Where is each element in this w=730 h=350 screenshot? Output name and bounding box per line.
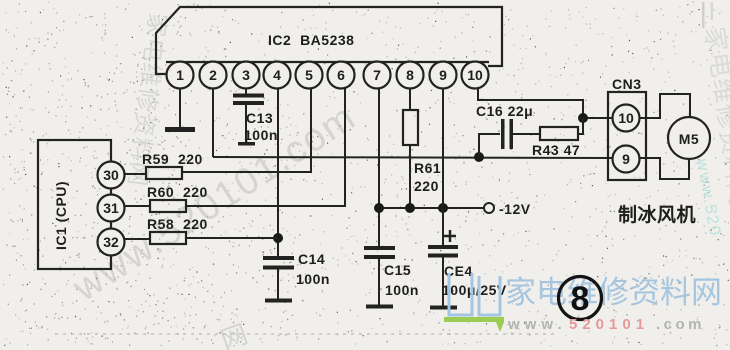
svg-text:6: 6 xyxy=(337,67,345,83)
IC2 pin 8 xyxy=(397,62,424,89)
faint diagonal watermark www.520101.com (left-middle) xyxy=(65,96,364,310)
IC1 pin 31 xyxy=(98,195,125,222)
wire net157 pin2 to CN3 pin9 xyxy=(213,157,613,158)
IC2 pin 2 xyxy=(200,62,227,89)
svg-text:30: 30 xyxy=(103,167,119,183)
svg-text:5: 5 xyxy=(305,67,313,83)
resistor R61 xyxy=(403,110,418,145)
IC2 pin 7 xyxy=(364,62,391,89)
IC2 pin 10 xyxy=(462,62,489,89)
wire pin2 down xyxy=(212,88,214,157)
svg-text:R60 220: R60 220 xyxy=(147,184,208,200)
junction node bus/R61 xyxy=(405,203,415,213)
svg-text:IC1 (CPU): IC1 (CPU) xyxy=(53,181,69,250)
svg-text:9: 9 xyxy=(622,151,630,167)
CN3 pin 10 xyxy=(613,105,640,132)
svg-text:32: 32 xyxy=(103,234,119,250)
svg-text:4: 4 xyxy=(273,67,281,83)
IC1 pin 30 xyxy=(98,162,125,189)
svg-text:3: 3 xyxy=(242,67,250,83)
svg-text:R43 47: R43 47 xyxy=(532,142,580,158)
junction node bus/pin7 xyxy=(374,203,384,213)
svg-text:.com: .com xyxy=(656,316,705,333)
resistor R60 xyxy=(150,200,186,212)
IC2 pin 3 xyxy=(233,62,260,89)
resistor R58 xyxy=(150,232,186,244)
svg-text:8: 8 xyxy=(571,280,590,318)
svg-text:-12V: -12V xyxy=(499,201,531,217)
wire R43 to junction xyxy=(578,118,583,134)
CN3 pin 9 xyxy=(613,146,640,173)
svg-text:C15: C15 xyxy=(384,262,411,278)
wire CN3 pin10 to M5 xyxy=(640,94,691,118)
svg-text:www.: www. xyxy=(507,316,567,333)
motor M5 xyxy=(668,117,710,159)
IC2 body outline xyxy=(156,7,502,74)
IC2 pin 4 xyxy=(264,62,291,89)
faint vertical watermark chars (upper-left) xyxy=(123,11,171,188)
capacitor C16 xyxy=(501,119,540,149)
R61 value label xyxy=(414,160,441,194)
IC2 pin 1 xyxy=(167,62,194,89)
wire R58 to pin4 node xyxy=(186,237,278,239)
svg-text:10: 10 xyxy=(618,110,634,126)
scan mark top-right 1 xyxy=(702,2,705,28)
wire C16 branch tap xyxy=(479,134,500,157)
scan streak bottom xyxy=(55,333,555,335)
svg-text:100n: 100n xyxy=(244,127,278,143)
svg-text:M5: M5 xyxy=(679,131,699,147)
svg-text:10: 10 xyxy=(467,67,483,83)
svg-text:7: 7 xyxy=(373,67,381,83)
capacitor C14 xyxy=(263,256,294,303)
wire pin4 down to C14 xyxy=(277,88,279,258)
svg-text:R58 220: R58 220 xyxy=(147,216,208,232)
wire pin8 to R61 xyxy=(409,88,411,110)
page number circled 8 xyxy=(559,277,602,320)
svg-text:CN3: CN3 xyxy=(612,76,642,92)
svg-text:家电维修资料网: 家电维修资料网 xyxy=(505,275,722,310)
svg-text:C16 22μ: C16 22μ xyxy=(476,103,533,119)
svg-text:520101: 520101 xyxy=(569,316,649,333)
svg-text:9: 9 xyxy=(439,67,447,83)
C15 value label xyxy=(384,262,419,298)
wire M5 to CN3 pin9 xyxy=(640,158,690,179)
IC1 pin 32 xyxy=(98,229,125,256)
capacitor CE4 xyxy=(428,245,458,310)
capacitor C15 xyxy=(364,246,395,309)
svg-text:C13: C13 xyxy=(246,110,273,126)
ground bar under pin 1 xyxy=(165,127,195,132)
svg-text:8: 8 xyxy=(406,67,414,83)
svg-text:2: 2 xyxy=(209,67,217,83)
wire pin9 down to CE4 xyxy=(442,88,444,246)
junction node pin10/R43 xyxy=(578,113,588,123)
terminal -12V xyxy=(484,203,494,213)
svg-text:1: 1 xyxy=(176,67,184,83)
IC1 (CPU) box xyxy=(38,140,111,269)
wire pin31 to R60 xyxy=(125,205,151,207)
svg-text:220: 220 xyxy=(414,178,439,194)
svg-text:制冰风机: 制冰风机 xyxy=(618,203,696,226)
svg-text:R59 220: R59 220 xyxy=(142,151,203,167)
wire pin30 to R59 xyxy=(125,173,147,175)
C14 value label xyxy=(296,251,330,287)
IC2 pin 5 xyxy=(296,62,323,89)
junction node R58/pin4 xyxy=(273,233,283,243)
svg-text:100n: 100n xyxy=(296,271,330,287)
svg-text:C14: C14 xyxy=(298,251,325,267)
svg-text:100n: 100n xyxy=(385,282,419,298)
C13 value label xyxy=(244,110,278,143)
CE4 value label xyxy=(442,263,507,298)
connector CN3 box xyxy=(608,92,646,180)
junction node bus/pin9 xyxy=(438,203,448,213)
wire pin5 down to R59 net xyxy=(182,88,311,172)
faint teal watermark www.52 (right lower) xyxy=(693,157,724,239)
resistor R59 xyxy=(146,167,182,179)
capacitor C13 xyxy=(233,94,264,146)
faint diagonal watermark chars (right edge) xyxy=(700,25,730,209)
wire pin1 down xyxy=(179,88,181,128)
logo green base xyxy=(444,317,504,322)
wire pin3 to C13 xyxy=(245,88,247,95)
wire -12V bus xyxy=(379,207,484,209)
logo green arrow xyxy=(496,322,504,332)
svg-text:IC2 BA5238: IC2 BA5238 xyxy=(268,32,354,48)
wire pin10 to CN3 pin10 xyxy=(478,88,612,118)
logo book pages xyxy=(449,273,500,315)
wire pin32 to R58 xyxy=(125,238,151,240)
svg-text:100μ/25V: 100μ/25V xyxy=(442,282,507,298)
IC2 pin 9 xyxy=(430,62,457,89)
wire R61 to bus xyxy=(409,145,411,208)
wire pin7 down through bus to C15 xyxy=(378,88,380,248)
wire pin6 down to R60 net xyxy=(186,88,345,206)
svg-text:31: 31 xyxy=(103,200,119,216)
scan mark top-right 2 xyxy=(711,2,714,20)
IC2 pin 6 xyxy=(328,62,355,89)
capacitor CE4 polarity + xyxy=(444,230,456,242)
svg-text:R61: R61 xyxy=(414,160,441,176)
resistor R43 xyxy=(540,127,578,140)
junction node C16 tap xyxy=(474,152,484,162)
